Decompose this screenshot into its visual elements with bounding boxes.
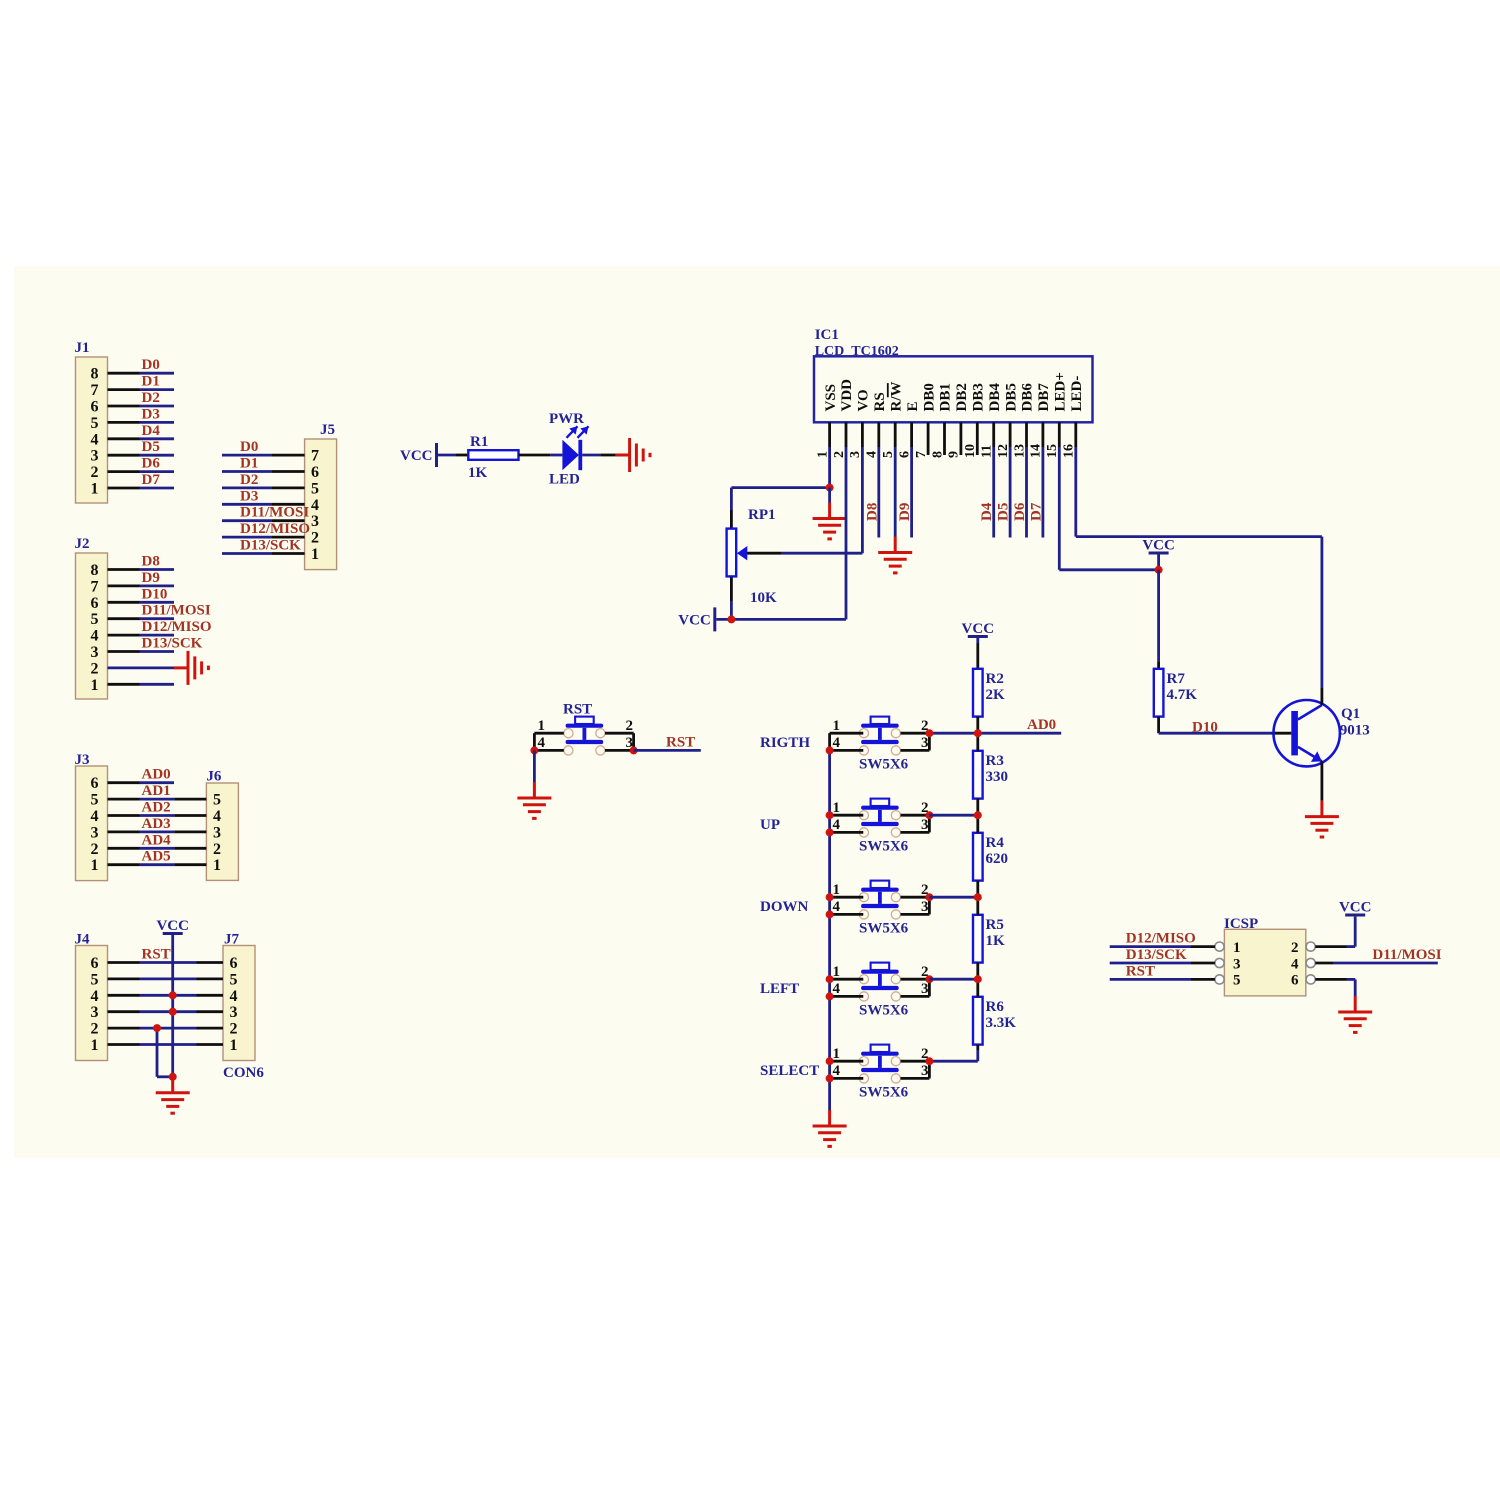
svg-text:LED-: LED- — [1069, 376, 1085, 412]
svg-text:RST: RST — [142, 947, 171, 963]
svg-text:Q1: Q1 — [1341, 706, 1360, 722]
svg-text:3.3K: 3.3K — [986, 1015, 1017, 1031]
svg-text:AD2: AD2 — [142, 800, 171, 816]
svg-text:D11/MOSI: D11/MOSI — [142, 603, 211, 619]
svg-text:R3: R3 — [986, 753, 1004, 769]
svg-text:6: 6 — [1291, 973, 1299, 989]
svg-text:1: 1 — [833, 964, 841, 980]
svg-text:VCC: VCC — [1339, 900, 1372, 916]
svg-text:1K: 1K — [986, 933, 1006, 949]
svg-text:3: 3 — [921, 735, 929, 751]
svg-text:VCC: VCC — [156, 918, 189, 934]
svg-text:DB7: DB7 — [1036, 383, 1052, 412]
svg-text:4: 4 — [833, 817, 841, 833]
svg-text:J3: J3 — [75, 752, 90, 768]
svg-text:4: 4 — [865, 451, 880, 458]
svg-text:1: 1 — [230, 1037, 238, 1054]
svg-text:D11/MOSI: D11/MOSI — [240, 505, 309, 521]
svg-text:D3: D3 — [142, 406, 160, 422]
svg-text:3: 3 — [921, 981, 929, 997]
svg-text:1: 1 — [1233, 940, 1241, 956]
svg-text:RST: RST — [563, 702, 592, 718]
svg-text:5: 5 — [91, 611, 99, 628]
svg-text:12: 12 — [996, 444, 1011, 458]
svg-text:2: 2 — [1291, 940, 1299, 956]
svg-text:7: 7 — [91, 578, 99, 595]
svg-text:AD4: AD4 — [142, 832, 172, 848]
svg-text:7: 7 — [914, 451, 929, 458]
svg-text:3: 3 — [91, 824, 99, 841]
svg-text:R1: R1 — [470, 434, 488, 450]
svg-text:DB3: DB3 — [971, 383, 987, 411]
svg-text:SW5X6: SW5X6 — [859, 1003, 909, 1019]
svg-text:D6: D6 — [142, 456, 161, 472]
svg-text:3: 3 — [848, 451, 863, 458]
svg-text:10: 10 — [963, 444, 978, 458]
svg-text:D1: D1 — [142, 374, 160, 390]
svg-text:4: 4 — [538, 735, 546, 751]
svg-text:D7: D7 — [142, 472, 161, 488]
svg-text:10K: 10K — [750, 590, 777, 606]
svg-text:J2: J2 — [75, 536, 90, 552]
svg-text:2: 2 — [91, 841, 99, 858]
svg-text:R/W: R/W — [888, 382, 904, 412]
svg-text:1: 1 — [538, 718, 546, 734]
svg-text:SW5X6: SW5X6 — [859, 921, 909, 937]
svg-text:J6: J6 — [206, 769, 222, 785]
svg-text:6: 6 — [311, 464, 319, 481]
svg-text:9: 9 — [947, 451, 962, 458]
svg-text:J4: J4 — [75, 932, 91, 948]
svg-text:R7: R7 — [1167, 671, 1186, 687]
svg-text:2: 2 — [213, 841, 221, 858]
svg-text:VCC: VCC — [400, 448, 433, 464]
svg-text:5: 5 — [881, 451, 896, 458]
svg-text:D10: D10 — [1192, 720, 1218, 736]
svg-text:RP1: RP1 — [748, 507, 776, 523]
svg-text:D13/SCK: D13/SCK — [1126, 947, 1187, 963]
svg-text:D0: D0 — [240, 439, 258, 455]
svg-text:LED+: LED+ — [1053, 372, 1069, 411]
svg-text:D9: D9 — [897, 503, 913, 521]
svg-text:DB5: DB5 — [1003, 383, 1019, 411]
svg-text:D1: D1 — [240, 456, 258, 472]
svg-text:RIGTH: RIGTH — [760, 735, 810, 751]
svg-text:5: 5 — [311, 480, 319, 497]
svg-text:VSS: VSS — [823, 384, 839, 412]
svg-text:D8: D8 — [142, 554, 160, 570]
svg-text:8: 8 — [91, 562, 99, 579]
svg-text:AD3: AD3 — [142, 816, 171, 832]
svg-text:3: 3 — [91, 448, 99, 465]
svg-text:15: 15 — [1045, 444, 1060, 458]
svg-text:SELECT: SELECT — [760, 1063, 819, 1079]
svg-text:3: 3 — [921, 1063, 929, 1079]
svg-text:3: 3 — [230, 1004, 238, 1021]
svg-text:D4: D4 — [979, 502, 995, 521]
svg-text:620: 620 — [986, 851, 1009, 867]
svg-text:14: 14 — [1029, 444, 1044, 458]
svg-text:D3: D3 — [240, 488, 258, 504]
svg-text:SW5X6: SW5X6 — [859, 1085, 909, 1101]
svg-text:4: 4 — [91, 431, 99, 448]
svg-text:D5: D5 — [996, 503, 1012, 521]
svg-text:D0: D0 — [142, 357, 160, 373]
svg-text:3: 3 — [311, 513, 319, 530]
svg-text:D2: D2 — [240, 472, 258, 488]
svg-text:J1: J1 — [75, 340, 90, 356]
svg-text:1K: 1K — [468, 465, 488, 481]
svg-text:1: 1 — [833, 718, 841, 734]
svg-text:D12/MISO: D12/MISO — [240, 521, 310, 537]
svg-text:4: 4 — [91, 988, 99, 1005]
svg-text:PWR: PWR — [549, 411, 584, 427]
svg-text:6: 6 — [91, 595, 99, 612]
svg-text:3: 3 — [921, 899, 929, 915]
svg-text:4: 4 — [230, 988, 238, 1005]
svg-text:1: 1 — [91, 857, 99, 874]
svg-text:D13/SCK: D13/SCK — [142, 636, 203, 652]
svg-text:D13/SCK: D13/SCK — [240, 538, 301, 554]
svg-text:SW5X6: SW5X6 — [859, 757, 909, 773]
svg-text:2: 2 — [91, 464, 99, 481]
svg-text:UP: UP — [760, 817, 780, 833]
svg-text:7: 7 — [91, 382, 99, 399]
svg-text:2: 2 — [832, 451, 847, 458]
svg-text:6: 6 — [91, 955, 99, 972]
svg-text:IC1: IC1 — [815, 327, 839, 343]
svg-text:AD0: AD0 — [142, 767, 171, 783]
svg-text:J5: J5 — [320, 422, 335, 438]
svg-text:AD1: AD1 — [142, 783, 171, 799]
svg-text:D12/MISO: D12/MISO — [1126, 931, 1196, 947]
svg-text:LEFT: LEFT — [760, 981, 799, 997]
svg-text:4: 4 — [1291, 956, 1299, 972]
svg-text:DOWN: DOWN — [760, 899, 809, 915]
svg-text:DB4: DB4 — [987, 383, 1003, 412]
svg-text:RST: RST — [1126, 963, 1155, 979]
svg-text:6: 6 — [91, 775, 99, 792]
svg-text:4: 4 — [311, 497, 319, 514]
svg-text:AD5: AD5 — [142, 849, 171, 865]
svg-text:4: 4 — [833, 735, 841, 751]
svg-text:J7: J7 — [224, 932, 240, 948]
svg-text:D8: D8 — [864, 503, 880, 521]
svg-text:VCC: VCC — [1142, 538, 1175, 554]
svg-text:4: 4 — [833, 981, 841, 997]
svg-text:6: 6 — [91, 399, 99, 416]
svg-text:SW5X6: SW5X6 — [859, 839, 909, 855]
svg-text:DB6: DB6 — [1020, 383, 1036, 412]
svg-text:2: 2 — [311, 530, 319, 547]
svg-text:D6: D6 — [1012, 502, 1028, 521]
svg-text:4: 4 — [833, 1063, 841, 1079]
svg-text:4: 4 — [213, 808, 221, 825]
svg-text:3: 3 — [921, 817, 929, 833]
svg-text:D4: D4 — [142, 423, 161, 439]
svg-text:4: 4 — [833, 899, 841, 915]
svg-text:2: 2 — [91, 1021, 99, 1038]
svg-text:1: 1 — [833, 882, 841, 898]
svg-text:5: 5 — [230, 971, 238, 988]
svg-text:D5: D5 — [142, 439, 160, 455]
svg-text:2K: 2K — [986, 687, 1006, 703]
svg-text:D12/MISO: D12/MISO — [142, 619, 212, 635]
svg-text:4: 4 — [91, 808, 99, 825]
svg-text:5: 5 — [1233, 973, 1241, 989]
svg-text:E: E — [905, 401, 921, 411]
svg-text:D11/MOSI: D11/MOSI — [1372, 947, 1441, 963]
svg-text:16: 16 — [1062, 444, 1077, 458]
svg-text:AD0: AD0 — [1027, 717, 1056, 733]
svg-text:5: 5 — [213, 792, 221, 809]
svg-text:2: 2 — [91, 660, 99, 677]
svg-text:4: 4 — [91, 628, 99, 645]
svg-text:DB1: DB1 — [938, 383, 954, 411]
svg-text:6: 6 — [230, 955, 238, 972]
svg-text:1: 1 — [833, 1046, 841, 1062]
svg-text:1: 1 — [91, 1037, 99, 1054]
svg-text:4.7K: 4.7K — [1167, 687, 1198, 703]
svg-text:3: 3 — [1233, 956, 1241, 972]
svg-text:1: 1 — [213, 857, 221, 874]
svg-text:VCC: VCC — [678, 612, 711, 628]
svg-text:5: 5 — [91, 971, 99, 988]
svg-text:5: 5 — [91, 415, 99, 432]
svg-text:D7: D7 — [1028, 502, 1044, 521]
svg-text:6: 6 — [897, 451, 912, 458]
svg-text:5: 5 — [91, 792, 99, 809]
svg-text:9013: 9013 — [1340, 723, 1370, 739]
svg-text:8: 8 — [91, 366, 99, 383]
svg-text:DB0: DB0 — [921, 383, 937, 411]
svg-text:VO: VO — [856, 389, 872, 411]
svg-text:2: 2 — [230, 1021, 238, 1038]
svg-text:3: 3 — [91, 644, 99, 661]
svg-text:330: 330 — [986, 769, 1009, 785]
svg-text:DB2: DB2 — [954, 383, 970, 411]
svg-text:R6: R6 — [986, 999, 1005, 1015]
svg-text:RS: RS — [872, 392, 888, 411]
svg-text:1: 1 — [91, 481, 99, 498]
svg-text:D10: D10 — [142, 586, 168, 602]
svg-text:3: 3 — [213, 824, 221, 841]
svg-text:R2: R2 — [986, 671, 1004, 687]
svg-text:13: 13 — [1012, 444, 1027, 458]
svg-text:R4: R4 — [986, 835, 1005, 851]
svg-text:RST: RST — [666, 734, 695, 750]
svg-text:D2: D2 — [142, 390, 160, 406]
svg-text:VDD: VDD — [839, 379, 855, 412]
svg-text:VCC: VCC — [962, 621, 995, 637]
svg-text:3: 3 — [91, 1004, 99, 1021]
svg-text:CON6: CON6 — [223, 1065, 264, 1081]
svg-text:1: 1 — [833, 800, 841, 816]
svg-text:1: 1 — [91, 677, 99, 694]
svg-text:7: 7 — [311, 448, 319, 465]
svg-text:1: 1 — [815, 451, 830, 458]
svg-text:D9: D9 — [142, 570, 160, 586]
svg-text:11: 11 — [980, 445, 995, 458]
svg-text:LED: LED — [549, 472, 580, 488]
svg-text:8: 8 — [930, 451, 945, 458]
svg-text:1: 1 — [311, 546, 319, 563]
svg-text:R5: R5 — [986, 917, 1004, 933]
svg-text:2: 2 — [626, 718, 634, 734]
